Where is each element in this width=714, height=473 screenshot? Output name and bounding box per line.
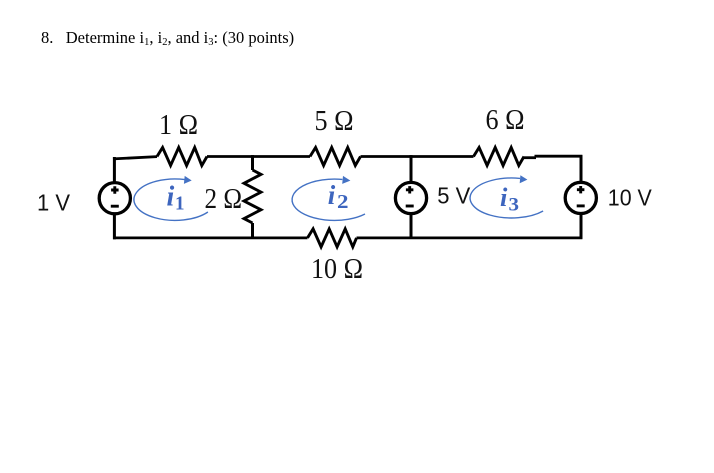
svg-text:2 Ω: 2 Ω	[205, 184, 243, 215]
svg-text:i: i	[500, 182, 508, 212]
svg-text:i: i	[167, 182, 175, 213]
svg-text:1 Ω: 1 Ω	[159, 110, 198, 141]
svg-text:10 Ω: 10 Ω	[311, 254, 363, 285]
svg-text:5 V: 5 V	[437, 183, 471, 209]
svg-text:1 V: 1 V	[37, 190, 71, 216]
svg-text:3: 3	[509, 195, 520, 216]
svg-text:10 V: 10 V	[608, 185, 653, 211]
svg-text:2: 2	[337, 191, 349, 213]
svg-text:5 Ω: 5 Ω	[315, 106, 354, 137]
svg-text:1: 1	[175, 193, 185, 215]
svg-text:i: i	[328, 180, 336, 210]
svg-text:6 Ω: 6 Ω	[486, 105, 525, 136]
